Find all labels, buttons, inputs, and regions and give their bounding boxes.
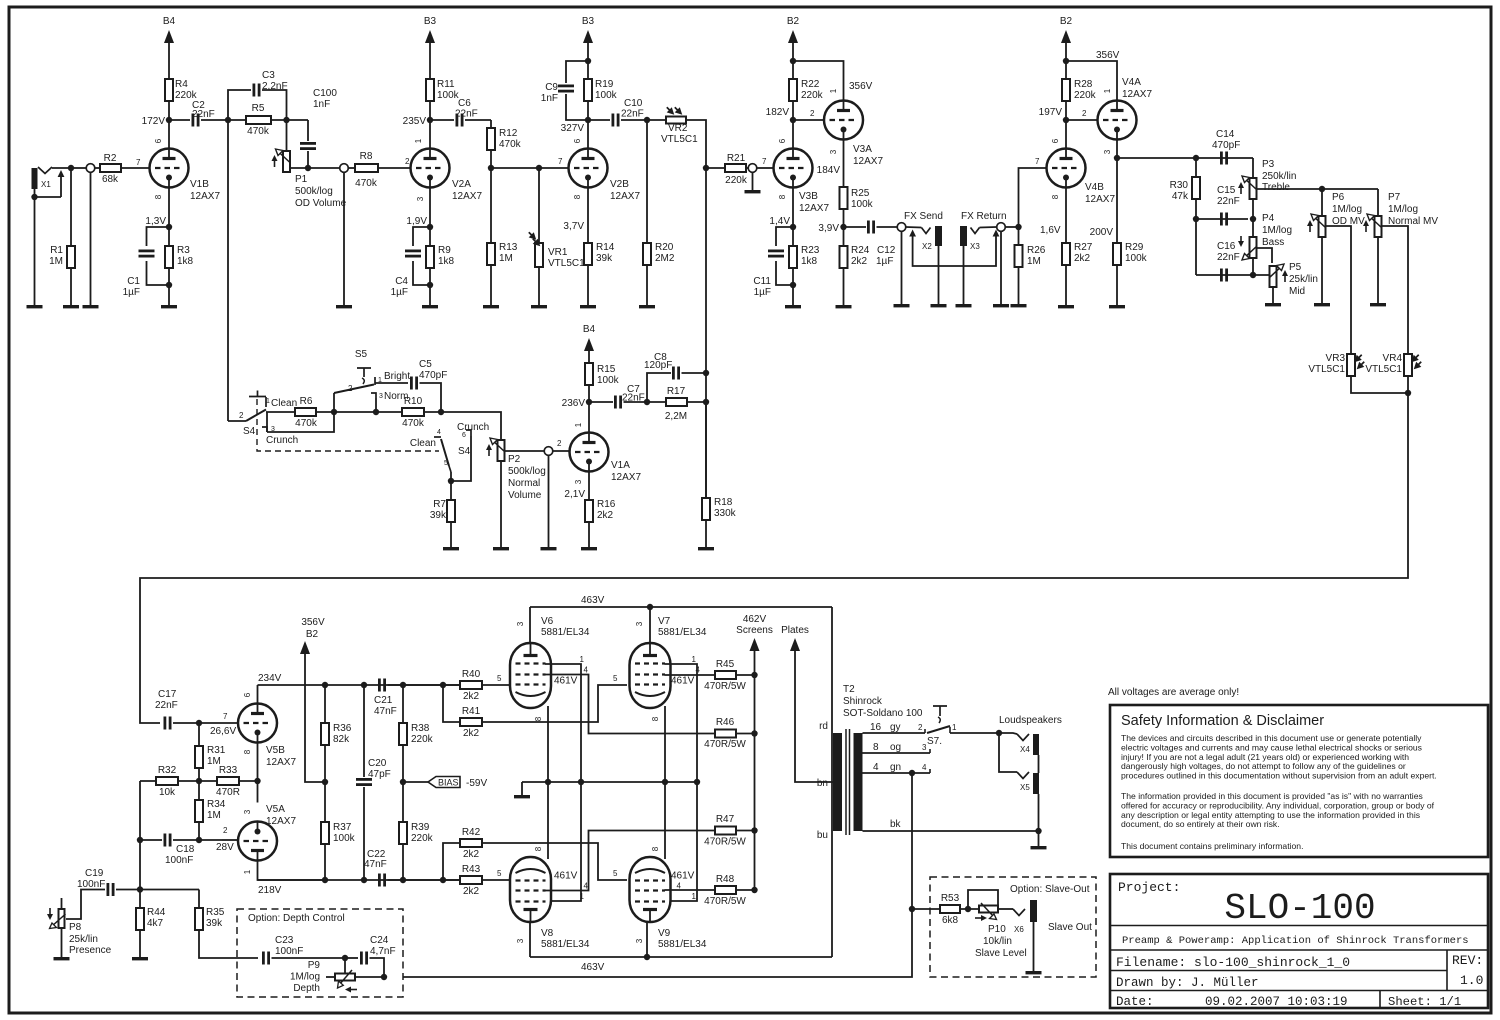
junction R21 tap [703,165,709,171]
svg-text:R32: R32 [158,765,177,776]
resistor R26 [1015,245,1023,267]
svg-text:B4: B4 [163,16,176,27]
wire terminal to R8 [349,167,356,169]
svg-text:B4: B4 [583,324,596,335]
wire master volume output to phase inverter [140,393,1408,723]
svg-text:V4B: V4B [1085,182,1104,193]
wire V6 cathode down [547,706,549,782]
svg-text:8: 8 [1051,194,1060,199]
wire C6 to R12 [465,119,491,121]
svg-text:C16: C16 [1217,241,1236,252]
svg-text:Date:: Date: [1116,995,1154,1009]
jack X6 Slave Out [1013,900,1037,922]
svg-text:1: 1 [580,892,585,901]
wire C8 to mix [682,372,707,374]
svg-text:R28: R28 [1074,79,1093,90]
wire to V4A plate [1066,61,1117,101]
node 327V [585,117,591,123]
ground X1 [27,305,43,308]
svg-text:8: 8 [873,742,879,753]
wire B3 to R19 [587,43,589,79]
svg-text:220k: 220k [411,734,434,745]
svg-text:C24: C24 [370,935,389,946]
junction R30 top [1193,155,1199,161]
svg-text:R36: R36 [333,723,352,734]
svg-text:47nF: 47nF [364,859,387,870]
wire R5 out [271,119,308,121]
svg-text:R19: R19 [595,79,614,90]
svg-text:2: 2 [239,411,244,420]
wire Plates to bn tap [795,651,833,782]
resistor R38 [399,723,407,745]
svg-text:V2B: V2B [610,179,629,190]
wire return terminal to ground [1000,232,1002,305]
svg-text:1nF: 1nF [313,99,330,110]
svg-text:5881/EL34: 5881/EL34 [658,627,707,638]
resistor R46 [715,730,736,738]
svg-text:Depth: Depth [293,983,320,994]
svg-text:OD Volume: OD Volume [295,198,347,209]
svg-text:B2: B2 [306,629,319,640]
svg-text:VTL5C1: VTL5C1 [1308,364,1345,375]
ground R18 [698,547,714,550]
svg-text:25k/lin: 25k/lin [1289,274,1318,285]
ground R7 [443,547,459,550]
junction R5/C3 out [283,117,289,123]
svg-text:Normal: Normal [508,478,540,489]
wire R24 to ground [843,268,845,305]
junction R44 [137,886,143,892]
svg-text:R41: R41 [462,706,481,717]
wire crunch bypass [267,412,334,432]
svg-text:1: 1 [574,422,583,427]
svg-text:1M: 1M [207,810,221,821]
svg-text:356V: 356V [1096,50,1120,61]
wire R25 to 3,9V node [843,209,845,227]
wire 197V to V4A grid [1066,119,1097,121]
svg-text:2,1V: 2,1V [564,489,585,500]
wire R11 to V2A plate [429,101,431,149]
wire V4B cathode to ground [1065,188,1067,306]
wire return to junction [1006,226,1019,228]
wire grid entry V5A [222,839,238,841]
ground cathode rail [521,782,523,795]
svg-text:R9: R9 [438,245,451,256]
svg-text:500k/log: 500k/log [508,466,546,477]
svg-text:172V: 172V [142,116,166,127]
wire R31 to divider [198,768,200,781]
terminal OD out [340,164,349,173]
svg-text:3: 3 [574,479,583,484]
wire C19 line [116,889,199,891]
wire B3 to R11 [429,43,431,79]
wire C16 line [1196,274,1269,276]
svg-text:R33: R33 [219,765,238,776]
wire terminal stub [752,173,754,191]
svg-text:2k2: 2k2 [597,510,614,521]
wire B4 to R4 [168,43,170,79]
capacitor C20 [356,779,372,784]
resistor R44 [136,908,144,930]
svg-text:8: 8 [154,194,163,199]
svg-text:47nF: 47nF [374,706,397,717]
wire R4 to V1B plate [168,101,170,149]
wire 236V to C7 [589,401,613,403]
resistor R45 [715,671,736,679]
wire 463V bottom line [530,956,832,958]
svg-text:1: 1 [266,398,270,405]
svg-text:12AX7: 12AX7 [1085,194,1115,205]
svg-text:1,3V: 1,3V [145,216,166,227]
svg-text:1: 1 [1103,88,1112,93]
resistor R31 [195,746,203,768]
junction g3 tie V6V8 [578,779,584,785]
potentiometer P9 Depth [335,970,357,993]
ground V2A cathode [422,305,438,308]
svg-text:4: 4 [437,429,441,436]
svg-text:C17: C17 [158,689,177,700]
svg-text:V6: V6 [541,616,554,627]
svg-text:327V: 327V [561,123,585,134]
svg-text:39k: 39k [596,253,613,264]
svg-text:C19: C19 [85,868,104,879]
svg-text:22nF: 22nF [155,700,178,711]
svg-text:R31: R31 [207,745,226,756]
capacitor C17 [165,717,170,730]
supply arrow B4 (V1B) [164,30,174,43]
svg-text:7: 7 [558,157,563,166]
ground VR1 [531,305,547,308]
svg-text:6: 6 [1051,138,1060,143]
ground input terminal [83,305,99,308]
wire to P9 [344,958,346,974]
svg-text:39k: 39k [206,918,223,929]
resistor R48 [715,886,736,894]
junction R48 rail [751,887,757,893]
svg-text:R34: R34 [207,799,226,810]
svg-text:1: 1 [692,892,697,901]
svg-text:FX Return: FX Return [961,211,1007,222]
svg-text:356V: 356V [301,617,325,628]
wire C10 out [621,119,666,121]
junction R46 rail [751,730,757,736]
svg-text:VR2: VR2 [668,123,688,134]
svg-text:47pF: 47pF [368,769,391,780]
capacitor C9 [558,86,574,91]
screens rail [736,674,755,676]
svg-text:R42: R42 [462,827,481,838]
svg-text:461V: 461V [554,676,578,687]
junction cathode top [166,224,172,230]
wire V6 pin4 to R46 [545,675,715,734]
wire B2 to R28 [1065,43,1067,79]
input jack X1 [32,167,53,197]
wire C100 to wiper line [307,151,309,168]
wire P3 wiper output [1257,188,1378,190]
wire pole to R7 [450,472,452,500]
wire 172V to C2 [169,119,190,121]
svg-text:1M/log: 1M/log [1388,204,1418,215]
power tube V8 [510,857,551,922]
junction P4 bottom [1250,272,1256,278]
resistor R32 [156,777,178,785]
wire P4 bottom [1252,258,1254,275]
svg-text:5: 5 [613,869,618,878]
resistor R12 [487,128,495,150]
svg-text:68k: 68k [102,174,119,185]
svg-text:4: 4 [873,762,879,773]
svg-text:3: 3 [635,621,644,626]
ground R1 [63,305,79,308]
svg-text:12AX7: 12AX7 [611,472,641,483]
triode V2A [411,149,450,188]
capacitor C12 [868,221,873,234]
capacitor C6 [457,114,462,127]
potentiometer P2 [486,438,505,461]
svg-text:bk: bk [890,819,902,830]
svg-text:R2: R2 [104,153,117,164]
wire R33 to cathodes [239,780,258,782]
wire bias stub [403,781,428,783]
wire C23 to junction [272,957,346,959]
resistor R22 [789,79,797,101]
svg-text:B2: B2 [1060,16,1073,27]
supply arrow B2 (V3) [788,30,798,43]
svg-text:10k/lin: 10k/lin [983,936,1012,947]
junction C5/R10 out [438,409,444,415]
svg-text:470R: 470R [216,787,240,798]
svg-text:8: 8 [243,749,252,754]
title block frame [1110,874,1488,1008]
junction speaker feed [996,730,1002,736]
wire V9 pin4 to R48 [665,889,716,891]
junction R53 out [965,906,971,912]
wire 463V right vertical [831,607,833,957]
svg-text:T2: T2 [843,684,855,695]
svg-text:463V: 463V [581,962,605,973]
wire R2 to V1B grid [121,167,149,169]
junction R41 branch [440,682,446,688]
wire R41 to V7 grid [482,685,627,722]
wire crunch to junction [451,436,471,481]
switch S5 norm contact [371,393,376,398]
wire node to R24 [843,227,845,246]
junction C100/wiper [305,165,311,171]
svg-text:4: 4 [677,882,682,891]
wire X3 tip to terminal [980,226,997,229]
terminal FX send [897,223,906,232]
svg-text:Drawn by: J. Müller: Drawn by: J. Müller [1116,976,1259,990]
svg-text:463V: 463V [581,595,605,606]
wire R19 to V2B plate [587,101,589,149]
junction C24 out [381,974,387,980]
resistor R6 [295,408,316,416]
svg-text:-59V: -59V [466,778,487,789]
resistor R43 [460,876,482,884]
svg-text:100nF: 100nF [77,879,105,890]
svg-text:Crunch: Crunch [457,422,489,433]
svg-text:VR3: VR3 [1326,353,1346,364]
svg-text:R48: R48 [716,874,735,885]
wire R43 to V8 grid [482,879,510,881]
svg-text:V4A: V4A [1122,77,1141,88]
resistor R4 [165,79,173,101]
svg-text:12AX7: 12AX7 [266,757,296,768]
title block dividers [1110,926,1488,1009]
svg-text:1: 1 [414,138,423,143]
resistor R33 [217,777,239,785]
capacitor C4 [405,251,421,256]
svg-text:2k2: 2k2 [463,849,480,860]
wire P10 top loop [968,890,998,909]
wire up to V4B grid [1019,168,1048,227]
capacitor C1 [139,251,155,256]
svg-text:S4: S4 [458,446,471,457]
svg-text:82k: 82k [333,734,350,745]
junction cathodes [254,778,260,784]
wire terminal to V3B [757,167,773,169]
ground X2 [931,304,947,307]
resistor R2 [100,164,121,172]
wire R36 to R37 [324,745,326,822]
svg-text:4: 4 [584,666,589,675]
wire secondary 8 ohm tap [863,752,931,754]
junction R31 bottom [196,778,202,784]
svg-text:1k8: 1k8 [177,256,194,267]
wire V7 pin4 to R45 [665,674,716,676]
power tube V9 [630,857,671,922]
svg-text:C1: C1 [127,276,140,287]
svg-text:Project:: Project: [1118,880,1180,895]
svg-text:7: 7 [136,158,141,167]
svg-text:R15: R15 [597,364,616,375]
jack X4 [1017,734,1039,755]
svg-text:P9: P9 [308,960,321,971]
svg-text:1µF: 1µF [391,287,408,298]
junction sleeve [31,194,37,200]
svg-text:3: 3 [516,938,525,943]
jack X3 switch arrow [993,230,1000,242]
svg-text:R17: R17 [667,386,686,397]
wire C24 to junction [370,958,385,977]
ground V1B cathode [161,305,177,308]
svg-text:6: 6 [243,692,252,697]
wire C21 out [388,684,461,686]
svg-text:X1: X1 [41,180,51,189]
svg-text:461V: 461V [554,871,578,882]
transformer T2 secondary winding [854,733,863,831]
node 197V [1063,117,1069,123]
potentiometer P6 OD MV [1307,214,1326,237]
svg-text:X5: X5 [1020,783,1030,792]
wire V7 plate lead [649,607,651,643]
contact 4 S7 [929,769,931,773]
photoresistor VR2 [666,117,686,124]
junction R6 out [331,409,337,415]
wire R10 to P2 [424,412,501,440]
wire to R53 [912,908,940,910]
wire C1 to cathode [147,261,170,285]
wire send terminal to tip [906,226,921,229]
capacitor C10 [613,114,618,127]
svg-text:bn: bn [817,778,828,789]
ground V3B cathode [785,305,801,308]
svg-text:3: 3 [416,196,425,201]
svg-text:6: 6 [778,138,787,143]
svg-text:Filename: slo-100_shinrock_1_0: Filename: slo-100_shinrock_1_0 [1116,955,1350,970]
wire C12 to send terminal [877,226,898,228]
wire X6 sleeve to ground [1033,922,1035,971]
wire P3 top lead [1252,158,1254,178]
ground X3 [956,304,972,307]
wire R26 to ground [1018,267,1020,304]
wire terminal to ground [343,173,345,306]
svg-text:2,2M: 2,2M [665,411,687,422]
svg-text:SLO-100: SLO-100 [1224,888,1375,929]
svg-text:2M2: 2M2 [655,253,675,264]
svg-text:4: 4 [584,882,589,891]
svg-text:P2: P2 [508,454,521,465]
wire to C4 [413,227,430,246]
resistor R42 [460,839,482,847]
svg-text:R39: R39 [411,822,430,833]
light arrows VR4 [1412,355,1421,369]
svg-text:FX Send: FX Send [904,211,943,222]
svg-text:100k: 100k [333,833,356,844]
wire R17 out [687,401,706,403]
svg-text:470R/5W: 470R/5W [704,896,746,907]
svg-text:VTL5C1: VTL5C1 [548,258,585,269]
svg-text:P4: P4 [1262,213,1275,224]
capacitor C11 [768,251,784,256]
wire P2 wiper out [505,450,545,452]
junction R39 bottom [400,877,406,883]
svg-text:2: 2 [348,384,353,393]
wire R40 to V6 grid [482,684,510,686]
wire NFB down from 4 ohm tap [403,773,912,977]
svg-text:1: 1 [952,723,957,732]
triode V1A [570,433,609,472]
svg-text:X4: X4 [1020,745,1030,754]
svg-text:P6: P6 [1332,192,1345,203]
wire R20 to ground [646,265,648,305]
svg-text:Safety Information & Disclaime: Safety Information & Disclaimer [1121,713,1324,729]
potentiometer P5 Mid [1269,264,1288,287]
svg-text:1M: 1M [1027,256,1041,267]
potentiometer P1 [272,149,291,172]
wire C15 line [1196,218,1248,220]
svg-text:461V: 461V [671,871,695,882]
jack X1 tip switch arrow [58,170,65,197]
terminal FX return [997,223,1006,232]
svg-text:3: 3 [516,621,525,626]
svg-text:R7: R7 [433,499,446,510]
svg-text:R45: R45 [716,659,735,670]
resistor R24 [840,246,848,268]
resistor R19 [584,79,592,101]
ground FX return terminal [993,304,1009,307]
svg-text:Slave Out: Slave Out [1048,922,1092,933]
capacitor C15 [1221,213,1226,226]
svg-text:C23: C23 [275,935,294,946]
svg-text:C14: C14 [1216,129,1235,140]
resistor R28 [1062,79,1070,101]
svg-text:182V: 182V [766,107,790,118]
svg-text:C4: C4 [395,276,408,287]
resistor R5 [246,116,271,124]
svg-text:3: 3 [1103,149,1112,154]
resistor R10 [402,408,424,416]
